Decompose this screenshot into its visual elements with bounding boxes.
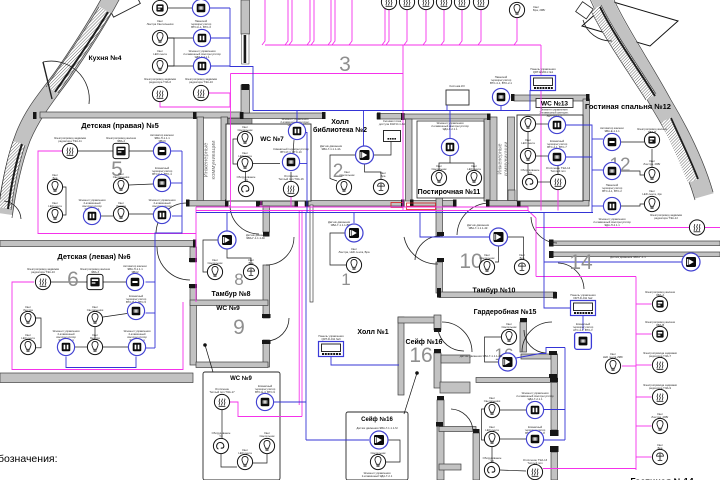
- door jamb 21: [189, 258, 197, 262]
- wire room6 lamps left: [36, 318, 41, 348]
- label top lamp: [533, 5, 546, 12]
- magenta bus A drop WC7: [260, 201, 262, 207]
- svg-text:Люстра, 29Вт: Люстра, 29Вт: [643, 162, 661, 166]
- magenta room12 bus: [536, 227, 720, 229]
- blue room5 stub1: [171, 150, 182, 152]
- control panel 3: [319, 342, 344, 357]
- long wall south of hall-library b: [305, 201, 404, 207]
- blue room5 stub3: [172, 215, 182, 217]
- label motion h1: [328, 220, 351, 227]
- magenta radiator riser 5: [459, 9, 462, 45]
- magenta bus A: [196, 207, 528, 211]
- window hatch lower-left: [5, 143, 19, 208]
- motion sensor hall1: [345, 224, 363, 242]
- magenta room6 loop: [12, 282, 183, 370]
- magenta trunk x636: [635, 277, 637, 471]
- magenta kitchen radiator loop: [160, 102, 231, 107]
- curved exterior wall band top-left: [5, 0, 112, 214]
- wire WC13 lamp-hook: [527, 164, 529, 174]
- wardrobe wall jamb: [550, 430, 559, 436]
- svg-text:LED лента, 4рк: LED лента, 4рк: [642, 192, 662, 196]
- wire kitchen lamp-elem 1: [168, 37, 193, 39]
- wire kitchen lamps: [168, 38, 174, 66]
- svg-text:библиотека №2: библиотека №2: [313, 126, 367, 134]
- label R5j: [149, 198, 176, 211]
- wire wardrobe lamp-motion: [485, 337, 502, 362]
- wire WC13 lamps: [527, 132, 529, 148]
- magenta riser 7: [332, 0, 335, 45]
- svg-text:QRT-E/2011 №1: QRT-E/2011 №1: [533, 70, 554, 74]
- floor lamp tambour8: [243, 264, 258, 279]
- blue corridor motion: [544, 261, 682, 263]
- network access point DAP: [384, 131, 401, 142]
- curved wall edge inner top-left: [0, 0, 105, 210]
- window sash thick line top-left: [55, 12, 108, 92]
- label laundry light1: [432, 164, 448, 171]
- radiator valve row 4: [436, 0, 451, 10]
- light hall1: [346, 257, 361, 272]
- balcony door leaf top-left: [108, 0, 141, 17]
- blue WC13 net: [566, 125, 592, 213]
- svg-text:ВТС-К-1, ВТС-3: ВТС-К-1, ВТС-3: [191, 25, 211, 29]
- WC13 right wall: [583, 99, 590, 201]
- door arc safe room right: [524, 330, 546, 353]
- magenta loop hall3: [231, 73, 404, 75]
- door jamb 3: [240, 112, 244, 119]
- wardrobe low h-wall: [439, 427, 476, 432]
- svg-text:радиатора ТЭА-10: радиатора ТЭА-10: [31, 270, 55, 274]
- svg-text:радиатора ТЭА-12: радиатора ТЭА-12: [654, 216, 678, 220]
- label ward elem: [516, 391, 554, 401]
- children-left room bottom wall: [0, 373, 193, 383]
- door jamb 18: [193, 240, 197, 248]
- wire tambour8 motion-tlamp: [227, 249, 251, 264]
- blue panel1 link: [530, 89, 538, 91]
- door jamb 16: [486, 200, 490, 207]
- door jamb 37: [550, 378, 558, 382]
- kitchen wall jamb: [242, 84, 250, 90]
- blue kitchen stub1: [210, 7, 230, 9]
- wire wardrobe lamp-hook: [491, 447, 493, 462]
- wall below kitchen: [40, 112, 248, 118]
- svg-text:10: 10: [459, 250, 482, 273]
- wire room12 elem-lamp: [621, 204, 644, 206]
- light WC7-2: [237, 156, 252, 171]
- magenta corridor line: [536, 276, 636, 278]
- control panel 2: [571, 301, 596, 316]
- radiator valve row 3: [418, 0, 433, 10]
- blue WC9box thermostat link: [274, 401, 306, 403]
- magenta trunk x196: [195, 207, 197, 302]
- children-left room top wall: [0, 241, 196, 247]
- light hall2: [336, 179, 351, 194]
- svg-text:ВТС-4-1, ВТС-2-1: ВТС-4-1, ВТС-2-1: [490, 81, 512, 85]
- radiator valve R12: [689, 220, 704, 235]
- door arc WC9 to hall: [267, 318, 289, 341]
- svg-text:LED лента: LED лента: [153, 52, 167, 56]
- svg-text:коммуникации: коммуникации: [211, 141, 217, 180]
- svg-text:6: 6: [67, 268, 79, 291]
- svg-text:ВТС-4-1, ВТС-2: ВТС-4-1, ВТС-2: [602, 189, 622, 193]
- radiator valve R6a: [35, 274, 50, 289]
- door jamb 34: [549, 374, 557, 378]
- blue room12 stub elem: [592, 205, 603, 207]
- blue room6 stub elem2: [146, 347, 155, 349]
- svg-text:Светильник: Светильник: [260, 434, 276, 438]
- floor lamp D14f: [652, 449, 667, 464]
- sq thermostat 15: [575, 333, 592, 350]
- red emergency strip small: [391, 203, 403, 208]
- blue tambour8 motion drop: [226, 213, 228, 232]
- curved wall edge outer top-right: [610, 0, 713, 192]
- blind activator R5c: [153, 142, 170, 159]
- light WC9box 2: [237, 454, 252, 469]
- door jamb 19: [549, 240, 554, 247]
- label K1: [147, 19, 174, 26]
- blind drive D14a: [652, 296, 667, 311]
- svg-text:DRT-D-011 №2: DRT-D-011 №2: [574, 296, 593, 300]
- magenta stub room14 dev 6: [636, 456, 652, 458]
- blue main bus: [253, 110, 530, 112]
- svg-text:Светильник: Светильник: [340, 173, 356, 177]
- label R5a: [54, 136, 87, 143]
- motion sensor corridor14: [682, 253, 700, 271]
- window frame lines top-left: [46, 7, 111, 93]
- label safe motion: [356, 426, 398, 430]
- label laundry elem: [431, 121, 469, 131]
- label laundry light2: [467, 164, 481, 171]
- control panel 1: [531, 76, 556, 91]
- wire tambour10 motion-lamp: [495, 246, 499, 262]
- kitchen control element K6: [193, 57, 210, 74]
- light laundry 1: [431, 170, 446, 185]
- kitchen wall thermostat K2: [192, 0, 209, 17]
- wire laundry elem-lamp2: [450, 163, 474, 170]
- svg-text:ЭДА-Н-2.1.1: ЭДА-Н-2.1.1: [604, 223, 620, 227]
- shaft left wall: [197, 117, 204, 201]
- blue wardrobe riser: [564, 348, 566, 441]
- window in kitchen wall: [242, 34, 250, 64]
- light WC9box 1: [259, 438, 274, 453]
- shaft text left: [204, 141, 218, 180]
- label R12 slot: [600, 126, 624, 136]
- label ward therm: [525, 425, 546, 435]
- label R12 light2: [642, 189, 662, 196]
- label K2: [191, 19, 212, 29]
- svg-text:1: 1: [341, 270, 350, 289]
- thermostat WC9box: [256, 393, 273, 410]
- wire room5 lamps: [62, 187, 66, 215]
- blue room12 stub therm: [592, 169, 603, 171]
- door arc wardrobe right: [522, 322, 552, 352]
- blind activator R12: [603, 133, 620, 150]
- wire hall2 motion-tlamp: [365, 164, 382, 179]
- label R5e: [113, 172, 130, 179]
- shaft top dark block: [228, 119, 252, 126]
- label R6b: [80, 267, 111, 274]
- wire room5 lamp-therm: [129, 184, 153, 185]
- svg-text:Гардеробная №15: Гардеробная №15: [474, 308, 537, 316]
- blue tambour10 motion: [420, 213, 489, 238]
- wire WC7 lamp2-therm: [253, 163, 280, 165]
- door jamb 17: [517, 200, 521, 207]
- hall right wall lower: [436, 262, 443, 293]
- blue kitchen stub3: [211, 65, 230, 67]
- safe16 group box: [346, 412, 408, 480]
- svg-text:ЭВА-Г-1.1.1-4А: ЭВА-Г-1.1.1-4А: [321, 147, 340, 151]
- magenta top bus: [265, 44, 541, 46]
- motion sensor tambour8: [218, 231, 236, 249]
- radiator valve D14d: [652, 389, 667, 404]
- motion sensor safe16box: [370, 431, 388, 449]
- blue room6 loop: [66, 357, 136, 368]
- door jamb 6: [401, 113, 405, 120]
- wire wardrobe lamp-elem2: [500, 438, 526, 440]
- WC7 group box: [226, 124, 311, 201]
- label panel1: [530, 67, 556, 74]
- magenta riser 9: [382, 0, 385, 45]
- label R6a: [27, 267, 60, 274]
- svg-text:Кухня №4: Кухня №4: [88, 55, 121, 62]
- light WC7-1: [237, 131, 252, 146]
- svg-text:Люстра Светильники: Люстра Светильники: [147, 22, 174, 26]
- equipment wardrobe: [484, 462, 499, 477]
- svg-text:Бра, 29Вт: Бра, 29Вт: [533, 8, 546, 12]
- svg-text:ЭВА-Г-1.1.1-4К: ЭВА-Г-1.1.1-4К: [468, 226, 487, 230]
- wire room12 jal-lamp: [651, 149, 653, 167]
- kitchen LED light K3: [152, 30, 167, 45]
- door jamb 11: [225, 200, 229, 207]
- window hatch right: [666, 120, 693, 181]
- magenta riser 8: [349, 0, 352, 45]
- blind drive R6b: [87, 274, 103, 289]
- wire WC13 lamp-elem1: [536, 123, 548, 125]
- tambour8 left wall upper: [190, 247, 197, 262]
- label tlamp t10: [519, 253, 526, 260]
- wire kitchen top pair: [168, 7, 192, 9]
- svg-text:14: 14: [569, 251, 593, 274]
- curved exterior wall band top-right: [600, 0, 704, 196]
- laundry room right wall: [484, 119, 491, 201]
- light wardrobe 1: [484, 402, 499, 417]
- label D14e: [651, 412, 669, 419]
- svg-text:радиатора ТЭА-6: радиатора ТЭА-6: [149, 80, 172, 84]
- hall right wall upper: [436, 198, 443, 236]
- magenta riser 5: [311, 0, 314, 45]
- label corridor motion: [610, 255, 646, 259]
- door jamb 30: [434, 328, 441, 332]
- safe room right wall low: [434, 353, 441, 388]
- shaft2 left wall: [490, 117, 497, 202]
- svg-text:Тёплый пол: Тёплый пол: [550, 169, 566, 173]
- label tlamp t8: [248, 258, 255, 265]
- blind drive R5b: [113, 143, 129, 158]
- svg-text:коммуникации: коммуникации: [504, 142, 510, 177]
- room thermostat wardrobe: [526, 430, 543, 447]
- door arc corridor14 west: [531, 217, 557, 243]
- wall right of safe16 box lower: [551, 452, 558, 480]
- label box light1: [260, 431, 276, 438]
- label K8: [185, 77, 218, 84]
- door jamb 20: [549, 251, 554, 258]
- label K3: [153, 49, 167, 56]
- motion sensor tambour10: [490, 228, 508, 246]
- wire wardrobe lamps: [482, 409, 485, 440]
- label R6e: [23, 305, 33, 312]
- wire kitchen lamp-elem 2: [168, 65, 193, 67]
- light WC13-1: [520, 116, 535, 131]
- magenta trunk x302: [301, 211, 303, 417]
- label top thermostat: [490, 75, 512, 85]
- blue room6 stub therm: [146, 312, 156, 314]
- radiator valve row 5: [454, 0, 469, 10]
- door leaf kitchen: [43, 62, 52, 99]
- equipment WC7: [238, 181, 253, 196]
- junction dot safe16: [415, 371, 419, 375]
- light tambour8: [207, 264, 222, 279]
- floor heating wardrobe: [527, 464, 542, 479]
- magenta stub room14 dev 1: [636, 303, 652, 305]
- floor heating WC9box: [214, 394, 229, 409]
- blue room12 stub slot: [592, 138, 603, 140]
- door arc kitchen: [43, 61, 89, 104]
- wire room5 jal-slot: [129, 150, 153, 152]
- svg-text:Датчик движения ЭВА-Г-1.1: Датчик движения ЭВА-Г-1.1: [610, 255, 646, 259]
- light 15: [605, 358, 620, 373]
- wire room6 lamp-therm: [103, 314, 127, 318]
- magenta bus B: [196, 211, 536, 219]
- storage niche bottom wall: [440, 382, 470, 393]
- label R12 jal: [637, 127, 668, 134]
- label R5g: [48, 201, 62, 208]
- label D14b: [645, 320, 676, 327]
- svg-text:WC №13: WC №13: [541, 101, 568, 108]
- door jamb 24: [262, 340, 271, 344]
- label R5b: [106, 136, 137, 143]
- label R6d: [126, 294, 147, 304]
- wall top of hall-3 right part: [377, 114, 404, 120]
- tambour10 left wall stub: [508, 190, 515, 201]
- label ward hook: [483, 456, 502, 463]
- magenta room5 loop: [38, 151, 196, 234]
- wall east of safe16 box: [473, 433, 480, 480]
- wire safe16box motion-lamp: [386, 440, 400, 462]
- light R12-1: [644, 167, 659, 182]
- magenta kitchen drop: [230, 74, 232, 208]
- long wall south of WC7: [188, 201, 228, 207]
- WC9 right wall lower: [263, 340, 270, 367]
- door jamb 1: [33, 112, 37, 119]
- window hatch top-right: [596, 8, 651, 97]
- wall D jamb right of door: [258, 198, 263, 205]
- light R12-2: [644, 196, 659, 211]
- blue panel3 link: [331, 357, 399, 366]
- wire WC13 therm-rad: [557, 165, 559, 174]
- label D14d: [643, 383, 677, 390]
- label motion hall2: [320, 144, 343, 151]
- svg-text:Гостиная спальня №12: Гостиная спальня №12: [585, 102, 671, 111]
- blue kitchen riser: [230, 8, 253, 111]
- label system KO: [449, 84, 465, 88]
- label WC13 light2: [521, 138, 535, 145]
- wire WC7 therm-rad: [290, 172, 292, 181]
- magenta riser 1: [262, 0, 265, 45]
- wire laundry elem-lamps: [439, 156, 450, 170]
- label D14a: [645, 290, 676, 297]
- kitchen right wall upper: [241, 0, 250, 34]
- door jamb 14: [410, 200, 414, 207]
- magenta lamp drop hall3: [514, 18, 517, 45]
- wardrobe low stub: [439, 464, 461, 470]
- svg-text:16: 16: [409, 344, 432, 367]
- wire room6 lamp-elem 1: [57, 346, 58, 348]
- label tlamp hall2: [380, 171, 387, 178]
- safe room right wall upper: [520, 322, 527, 352]
- floor lamp hall2: [373, 179, 388, 194]
- door jamb 8: [511, 94, 515, 101]
- control element R6j: [128, 338, 145, 355]
- window glazing band top-right: [596, 8, 651, 97]
- magenta trunk x299: [298, 211, 300, 406]
- wire WC9box lamp chain1: [221, 454, 237, 467]
- svg-text:8: 8: [234, 270, 243, 289]
- light tambour10: [479, 259, 494, 274]
- door jamb 4: [322, 112, 326, 119]
- bay window outline top-right: [582, 1, 678, 46]
- window hatch top-left: [52, 10, 105, 90]
- long wall south of hall-library: [258, 201, 297, 207]
- door jamb 25: [437, 232, 444, 236]
- shaft text right: [498, 142, 510, 177]
- magenta riser 3: [289, 0, 292, 45]
- label R6g: [21, 333, 35, 340]
- light R5g: [47, 207, 62, 222]
- light R5i: [113, 206, 128, 221]
- blue safe16 motion link: [306, 439, 369, 441]
- light safe16box: [370, 454, 385, 469]
- door arc corridor14 south: [558, 263, 584, 289]
- label ward rad: [523, 458, 548, 465]
- blue WC7 right riser: [305, 133, 308, 213]
- label R6f: [87, 305, 104, 312]
- tambour8 right wall upper: [263, 206, 270, 232]
- svg-text:Холл №1: Холл №1: [357, 328, 388, 336]
- magenta bottom link: [543, 468, 636, 470]
- door jamb 5: [377, 113, 381, 120]
- svg-text:Бра: Бра: [381, 174, 386, 178]
- light WC13-2: [520, 148, 535, 163]
- svg-text:ЭДА-Г-2.1.1: ЭДА-Г-2.1.1: [442, 127, 457, 131]
- wire WC13 hook-rad: [538, 181, 550, 183]
- wire hall1 motion-lamp: [330, 233, 346, 265]
- svg-text:ЭВА-3: ЭВА-3: [91, 270, 99, 274]
- label R5i: [116, 201, 126, 208]
- label WC7 rad: [278, 174, 304, 181]
- blue drop motion hall2: [363, 111, 365, 147]
- corridor14 upper wall: [550, 241, 720, 246]
- blue trunk x306: [305, 213, 307, 441]
- corridor14 lower wall: [550, 252, 720, 257]
- wire WC7 lamps: [233, 139, 237, 164]
- wardrobe wall jamb2: [550, 446, 559, 452]
- kitchen light K5: [152, 58, 167, 73]
- blue WC13 stub: [566, 156, 592, 158]
- window sash thick line right: [671, 118, 698, 179]
- svg-text:2-клавишный ЭДА-Г-2.1: 2-клавишный ЭДА-Г-2.1: [362, 474, 393, 478]
- storage niche top wall: [441, 355, 470, 363]
- blue room5 stub2: [171, 182, 182, 184]
- label ward light0: [502, 322, 518, 329]
